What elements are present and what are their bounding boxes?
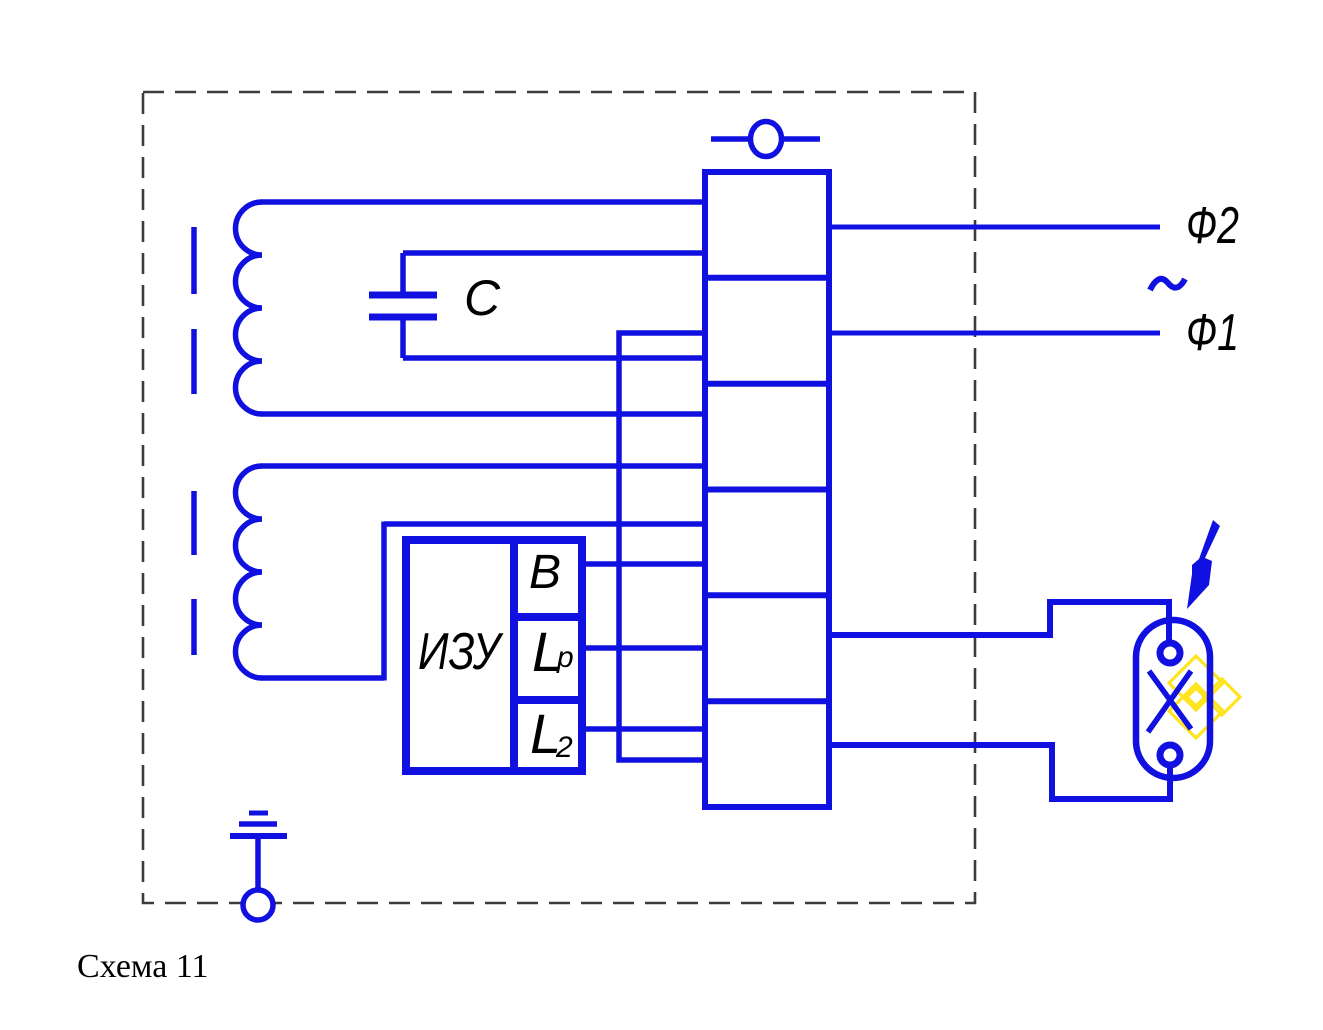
ground bar mid [239, 821, 277, 827]
wire: B terminal to block [582, 561, 702, 567]
block divider 5 [705, 698, 829, 704]
svg-text:2: 2 [555, 731, 573, 764]
wire: upper run to terminal block [384, 521, 702, 527]
svg-text:B: B [529, 546, 561, 599]
lamp filament X stroke 2 [1148, 671, 1191, 732]
svg-text:Схема 11: Схема 11 [77, 948, 209, 985]
wire: L2 terminal to block [582, 726, 702, 732]
core of L1 dashed [191, 227, 197, 294]
block divider 2 [705, 381, 829, 387]
choke L1 winding [236, 202, 263, 414]
lamp filament X stroke 1 [1149, 671, 1191, 729]
lamp bottom contact [1160, 745, 1180, 765]
ground bar short [249, 811, 268, 816]
capacitor C plates [369, 292, 437, 299]
block divider 4 [705, 592, 829, 598]
svg-text:Ф2: Ф2 [1186, 197, 1239, 255]
terminal strip narrow [619, 333, 705, 760]
block divider 1 [705, 275, 829, 281]
indicator terminal circle [751, 122, 782, 157]
ground bar long [230, 833, 287, 839]
ignition pulse lightning arrow [1187, 520, 1220, 609]
wire: L1 bottom to terminal block [261, 411, 702, 417]
block divider 3 [705, 487, 829, 493]
watermark diamonds [1169, 656, 1240, 738]
indicator terminal line on top [711, 136, 820, 142]
ИЗУ divider vertical [510, 540, 518, 771]
ИЗУ sub divider 2 [514, 696, 582, 704]
svg-text:ИЗУ: ИЗУ [418, 623, 504, 681]
lamp bulb outline [1136, 620, 1210, 778]
wire: L1 top to terminal block [261, 199, 702, 205]
wire: Lp terminal to block [582, 645, 702, 651]
svg-text:Ф1: Ф1 [1186, 304, 1239, 362]
wire: block to lamp top [831, 602, 1169, 641]
wire: phase F2 output [831, 225, 1160, 230]
svg-text:p: p [556, 641, 574, 674]
igniter unit ИЗУ box [406, 540, 582, 771]
earth terminal circle [243, 890, 273, 920]
enclosure: dashed ballast boundary [143, 92, 975, 903]
choke L2 winding [236, 466, 263, 678]
wire: capacitor top lead [400, 253, 406, 293]
ИЗУ sub divider 1 [514, 613, 582, 621]
wire: phase F1 output [831, 331, 1160, 336]
wire: capacitor bottom lead [400, 319, 406, 358]
wire: L2 top to terminal block [261, 463, 702, 469]
AC tilde [1150, 279, 1185, 290]
wire: capacitor top rail [403, 250, 702, 256]
wire: L2 bottom run [261, 675, 384, 681]
earth stem wire [255, 836, 261, 890]
wire: block to lamp bottom [831, 745, 1170, 799]
lamp top contact [1160, 643, 1180, 663]
terminal block main [705, 172, 829, 807]
core of L2 dashed [191, 491, 197, 555]
svg-text:C: C [464, 270, 501, 326]
wire: riser x384 [381, 522, 387, 681]
wire: capacitor bottom rail [403, 355, 702, 361]
